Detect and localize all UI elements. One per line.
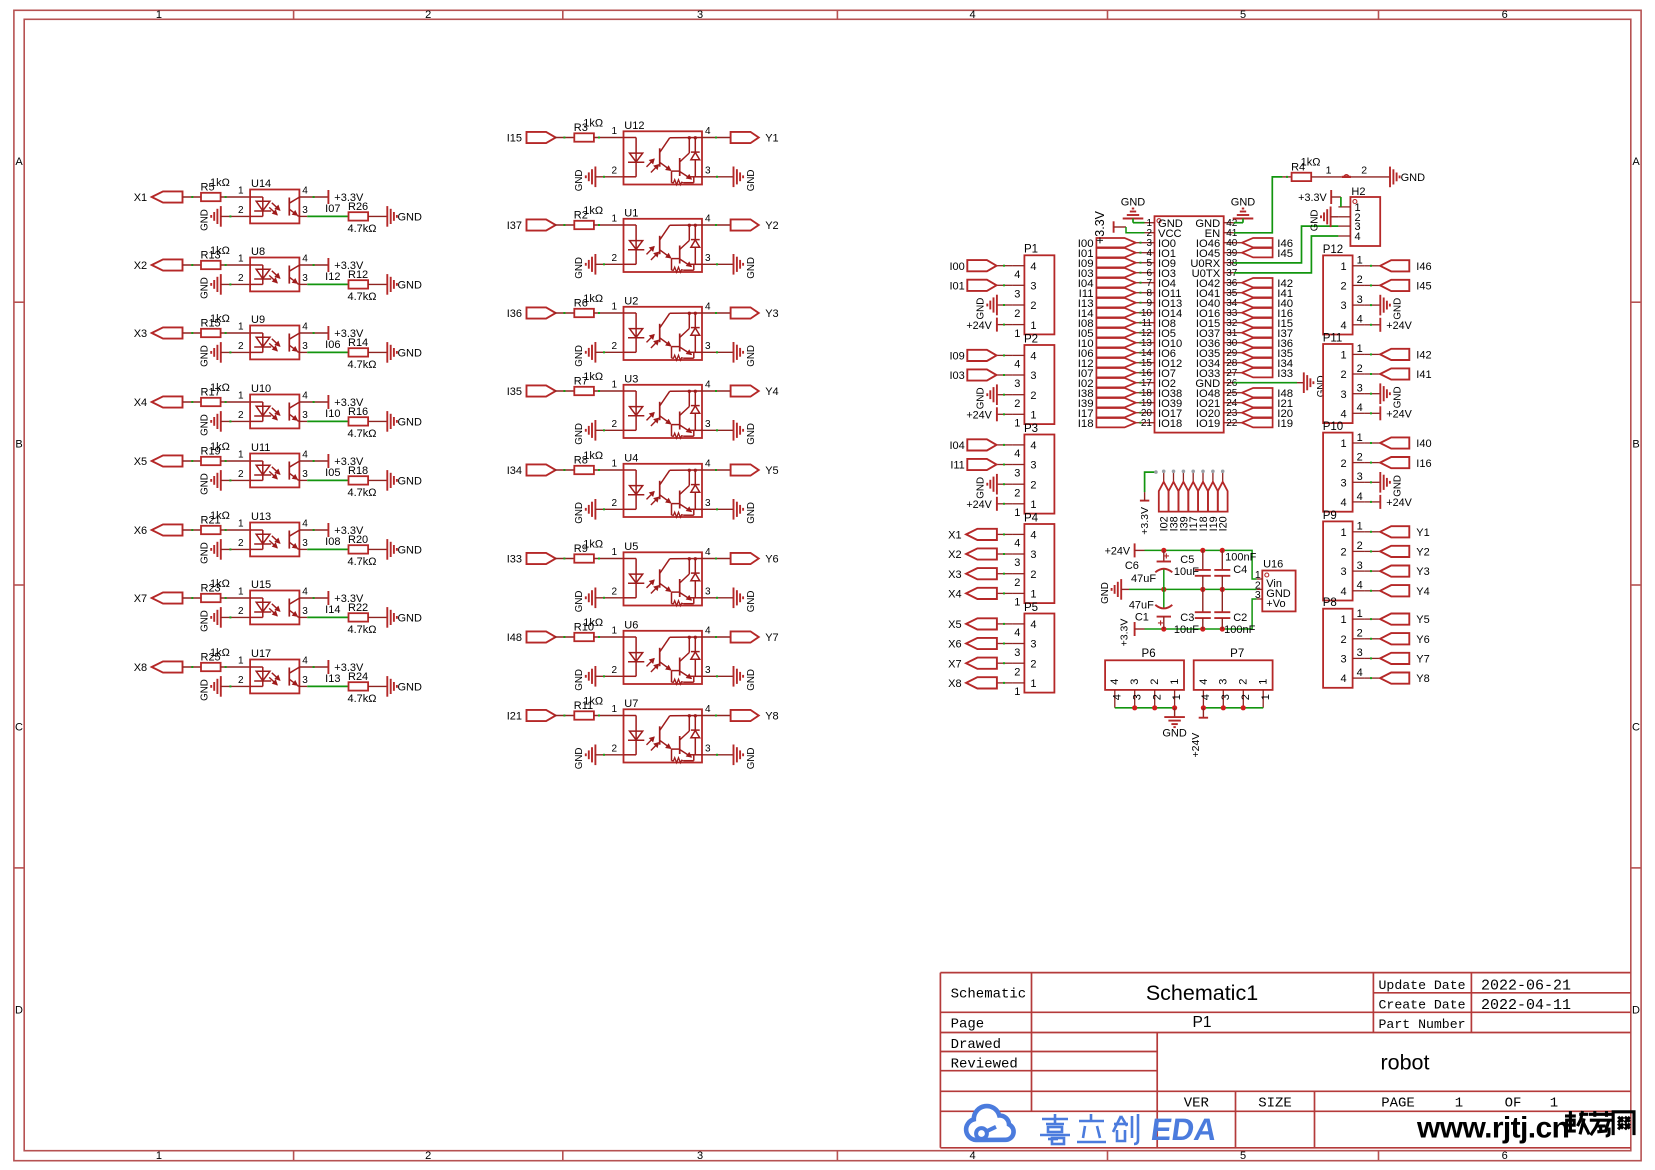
svg-text:P3: P3 — [1024, 423, 1038, 435]
svg-text:2: 2 — [1361, 164, 1367, 176]
ground — [200, 676, 221, 701]
resistor R8 — [574, 450, 603, 474]
wire — [1234, 302, 1242, 304]
wire — [702, 263, 734, 265]
svg-text:2: 2 — [1151, 694, 1163, 700]
svg-text:1: 1 — [611, 547, 617, 558]
svg-text:2: 2 — [611, 586, 617, 597]
wire — [1136, 362, 1145, 364]
net flag I19 — [1242, 418, 1293, 430]
svg-text:3: 3 — [705, 586, 711, 597]
wire — [183, 529, 202, 531]
svg-text:I14: I14 — [325, 604, 340, 616]
wire — [1365, 531, 1381, 533]
svg-text:GND: GND — [200, 345, 211, 367]
svg-text:3: 3 — [302, 606, 308, 617]
wire — [221, 479, 250, 481]
optocoupler U15 — [238, 579, 308, 624]
svg-text:2: 2 — [1240, 694, 1252, 700]
wire — [368, 616, 387, 618]
net flag I34 — [1242, 358, 1293, 370]
svg-text:X8: X8 — [134, 662, 147, 674]
wire — [555, 224, 575, 226]
wire — [183, 332, 202, 334]
svg-text:I35: I35 — [507, 386, 522, 398]
svg-text:GND: GND — [574, 502, 585, 524]
wire net I07 — [307, 215, 348, 217]
svg-text:EDA: EDA — [1149, 1112, 1219, 1147]
svg-text:PAGE: PAGE — [1381, 1096, 1415, 1112]
net flag Y2 — [731, 219, 779, 232]
wire — [221, 351, 250, 353]
svg-text:GND: GND — [746, 591, 757, 613]
svg-text:GND: GND — [746, 502, 757, 524]
svg-text:C: C — [1632, 722, 1640, 734]
svg-text:1: 1 — [1030, 678, 1036, 690]
net flag I19 — [1208, 482, 1220, 532]
port X8 — [948, 677, 997, 690]
svg-text:I03: I03 — [950, 370, 965, 382]
svg-text:1: 1 — [1260, 694, 1272, 700]
frame tick — [836, 10, 838, 19]
net flag Y7 — [731, 631, 779, 644]
svg-text:Schematic1: Schematic1 — [1146, 981, 1258, 1005]
wire — [997, 354, 1013, 356]
wire — [555, 558, 575, 560]
net flag I04 — [1078, 278, 1136, 290]
svg-text:X4: X4 — [948, 589, 961, 601]
resistor R25 — [201, 647, 230, 671]
ground — [1380, 383, 1403, 408]
svg-text:I41: I41 — [1416, 369, 1431, 381]
net flag Y3 — [1380, 566, 1430, 579]
svg-text:GND: GND — [398, 347, 423, 359]
net flag I17 — [1188, 482, 1200, 532]
wire — [997, 503, 1013, 505]
svg-text:1: 1 — [611, 126, 617, 137]
wire +24V rail — [1135, 549, 1145, 551]
svg-text:2: 2 — [1014, 666, 1020, 678]
svg-text:2: 2 — [1030, 658, 1036, 670]
port X2 — [134, 259, 183, 272]
svg-text:1kΩ: 1kΩ — [583, 205, 603, 217]
resistor R24 — [348, 671, 368, 691]
svg-text:1kΩ: 1kΩ — [210, 313, 230, 325]
wire — [997, 483, 1013, 485]
ground — [1390, 167, 1425, 188]
ground — [976, 384, 997, 409]
resistor R23 — [201, 578, 230, 602]
wire — [1365, 373, 1381, 375]
ground — [1162, 708, 1187, 740]
svg-text:R26: R26 — [348, 201, 368, 213]
svg-text:R20: R20 — [348, 534, 368, 546]
svg-text:4: 4 — [1014, 538, 1020, 550]
svg-text:4: 4 — [969, 1150, 975, 1162]
svg-text:3: 3 — [697, 9, 703, 21]
svg-text:2: 2 — [1340, 281, 1346, 293]
ground — [200, 539, 221, 564]
svg-text:2: 2 — [1014, 577, 1020, 589]
svg-text:1: 1 — [156, 9, 162, 21]
wire — [555, 390, 575, 392]
svg-text:1kΩ: 1kΩ — [583, 293, 603, 305]
ground — [200, 411, 221, 436]
resistor R7 — [574, 371, 603, 395]
frame tick — [1378, 10, 1380, 19]
wire — [299, 666, 328, 668]
net flag Y8 — [1380, 673, 1430, 686]
svg-text:Schematic: Schematic — [951, 987, 1027, 1003]
ground — [734, 254, 757, 279]
svg-text:3: 3 — [302, 410, 308, 421]
wire — [555, 636, 575, 638]
wire — [299, 460, 328, 462]
svg-text:4: 4 — [1014, 269, 1020, 281]
net flag I35 — [1242, 348, 1293, 360]
svg-text:P2: P2 — [1024, 333, 1038, 345]
wire — [221, 548, 250, 550]
wire — [1234, 242, 1242, 244]
net flag I20 — [1242, 408, 1293, 420]
svg-text:1: 1 — [1455, 1096, 1463, 1112]
wire U0TX — [1234, 236, 1339, 273]
wire — [1365, 638, 1381, 640]
watermark www.rjtj.cn softare site — [1416, 1111, 1634, 1145]
wire GND rail — [1121, 588, 1129, 590]
wire — [595, 263, 623, 265]
ground — [574, 342, 595, 367]
svg-text:H2: H2 — [1351, 186, 1365, 198]
ground — [734, 666, 757, 691]
wire — [1351, 176, 1390, 178]
svg-text:2: 2 — [1030, 390, 1036, 402]
svg-text:1: 1 — [1340, 614, 1346, 626]
svg-text:D: D — [15, 1004, 23, 1016]
ground — [200, 470, 221, 495]
svg-text:3: 3 — [697, 1150, 703, 1162]
svg-text:4: 4 — [1030, 440, 1036, 452]
port X4 — [948, 588, 997, 601]
wire — [1311, 176, 1342, 178]
svg-text:4.7kΩ: 4.7kΩ — [348, 359, 377, 371]
ground — [574, 499, 595, 524]
resistor R4 — [1291, 157, 1320, 181]
svg-text:1kΩ: 1kΩ — [210, 177, 230, 189]
net flag I46 — [1380, 260, 1431, 273]
net flag I13 — [1078, 298, 1136, 310]
svg-text:4.7kΩ: 4.7kΩ — [348, 487, 377, 499]
svg-text:D: D — [1632, 1004, 1640, 1016]
connector P9 — [1323, 510, 1365, 601]
wire — [997, 304, 1013, 306]
ground — [387, 206, 422, 227]
MCU U18 (42-pin module) — [1141, 216, 1238, 432]
wire — [1136, 412, 1145, 414]
jumper — [1342, 175, 1351, 177]
wire — [1136, 282, 1145, 284]
wire — [1234, 282, 1242, 284]
net flag I41 — [1242, 288, 1293, 300]
wire — [595, 429, 623, 431]
svg-text:1: 1 — [1030, 409, 1036, 421]
svg-text:6: 6 — [1502, 1150, 1508, 1162]
svg-text:100nF: 100nF — [1225, 552, 1256, 564]
svg-text:P6: P6 — [1142, 648, 1156, 660]
svg-text:I45: I45 — [1277, 248, 1293, 260]
svg-text:1: 1 — [156, 1150, 162, 1162]
net flag I17 — [1078, 408, 1136, 420]
wire — [702, 636, 731, 638]
wire — [1365, 412, 1381, 414]
wire — [1234, 342, 1242, 344]
svg-text:I11: I11 — [950, 460, 964, 472]
resistor R17 — [201, 382, 230, 406]
ground — [1121, 197, 1146, 219]
optocoupler U12 — [611, 120, 711, 185]
wire — [1136, 402, 1145, 404]
connector P11 — [1323, 332, 1365, 423]
net flag I08 — [1078, 318, 1136, 330]
svg-text:1: 1 — [238, 254, 244, 265]
wire — [1283, 176, 1292, 178]
net flag Y8 — [731, 710, 779, 723]
net flag Y3 — [731, 307, 779, 320]
svg-text:+24V: +24V — [1386, 408, 1412, 420]
net flag I36 — [507, 307, 556, 320]
svg-text:I33: I33 — [507, 554, 522, 566]
svg-text:2: 2 — [238, 469, 244, 480]
net flag Y1 — [731, 132, 779, 145]
connector P3 — [1012, 423, 1054, 519]
connector P2 — [1012, 333, 1054, 429]
svg-text:+24V: +24V — [1386, 497, 1412, 509]
net flag I11 — [1079, 288, 1136, 300]
svg-text:10uF: 10uF — [1174, 566, 1199, 578]
wire — [299, 332, 328, 334]
svg-text:4: 4 — [302, 322, 308, 333]
svg-text:4: 4 — [1014, 627, 1020, 639]
svg-text:4: 4 — [1030, 619, 1036, 631]
svg-text:I00: I00 — [950, 261, 965, 273]
svg-text:2: 2 — [238, 410, 244, 421]
svg-text:X8: X8 — [948, 678, 961, 690]
svg-text:1kΩ: 1kΩ — [1301, 157, 1321, 169]
optocoupler U2 — [611, 295, 711, 360]
svg-text:2: 2 — [611, 498, 617, 509]
svg-text:1: 1 — [1014, 507, 1020, 519]
wire — [1365, 393, 1381, 395]
ground — [200, 342, 221, 367]
wire — [1136, 342, 1145, 344]
net flag I07 — [1078, 368, 1136, 380]
svg-text:I09: I09 — [950, 351, 965, 363]
svg-text:Y8: Y8 — [765, 711, 778, 723]
wire — [183, 666, 202, 668]
wire — [702, 469, 731, 471]
svg-text:2: 2 — [1357, 451, 1363, 463]
svg-text:2: 2 — [611, 665, 617, 676]
svg-text:3: 3 — [1357, 471, 1363, 483]
svg-text:4.7kΩ: 4.7kΩ — [348, 624, 377, 636]
svg-text:1: 1 — [1357, 343, 1363, 355]
svg-text:I16: I16 — [1416, 458, 1431, 470]
net flag I33 — [1242, 368, 1293, 380]
wire — [221, 401, 251, 403]
ground — [976, 474, 997, 499]
net flag I21 — [1242, 398, 1293, 410]
net flag Y2 — [1380, 546, 1430, 559]
net flag I37 — [507, 219, 556, 232]
power +24V — [1105, 543, 1135, 557]
power +24V — [1380, 406, 1412, 420]
wire — [1234, 322, 1242, 324]
svg-text:P4: P4 — [1024, 512, 1039, 524]
wire — [1136, 332, 1145, 334]
wire — [368, 283, 387, 285]
wire — [1182, 472, 1184, 482]
net flag I14 — [1078, 308, 1136, 320]
net flag Y1 — [1380, 526, 1430, 539]
svg-text:2: 2 — [1014, 308, 1020, 320]
svg-text:4: 4 — [302, 254, 308, 265]
svg-text:1kΩ: 1kΩ — [210, 441, 230, 453]
svg-text:1kΩ: 1kΩ — [210, 578, 230, 590]
wire — [1242, 219, 1244, 223]
svg-text:GND: GND — [398, 612, 423, 624]
wire — [1365, 550, 1381, 552]
ground — [200, 607, 221, 632]
svg-text:C: C — [15, 722, 23, 734]
capacitor C5 10uF — [1174, 550, 1211, 589]
svg-text:1: 1 — [238, 587, 244, 598]
wire — [1365, 501, 1381, 503]
wire — [183, 401, 202, 403]
svg-text:I36: I36 — [507, 308, 522, 320]
wire — [997, 682, 1013, 684]
wire — [594, 636, 624, 638]
wire — [595, 508, 623, 510]
wire — [1365, 284, 1381, 286]
wire — [368, 479, 387, 481]
wire — [299, 196, 328, 198]
svg-text:2: 2 — [425, 1150, 431, 1162]
svg-text:Y6: Y6 — [765, 554, 778, 566]
net flag I45 — [1242, 248, 1293, 260]
wire — [221, 460, 251, 462]
svg-text:3: 3 — [1340, 389, 1346, 401]
net flag I00 — [1078, 238, 1136, 250]
optocoupler U4 — [611, 452, 711, 517]
wire — [997, 284, 1013, 286]
wire — [555, 715, 575, 717]
svg-text:R14: R14 — [348, 337, 368, 349]
svg-text:1: 1 — [1357, 521, 1363, 533]
net flag Y5 — [1380, 614, 1430, 627]
wire — [1222, 472, 1224, 482]
svg-text:3: 3 — [1014, 468, 1020, 480]
svg-text:4: 4 — [705, 547, 711, 558]
svg-text:GND: GND — [1162, 728, 1187, 740]
svg-text:+24V: +24V — [1105, 546, 1131, 558]
svg-text:www.rjtj.cn: www.rjtj.cn — [1416, 1112, 1569, 1145]
wire — [702, 597, 734, 599]
svg-text:1: 1 — [1357, 608, 1363, 620]
wire — [221, 597, 251, 599]
svg-text:4: 4 — [705, 459, 711, 470]
optocoupler U10 — [238, 383, 308, 428]
ground — [200, 206, 221, 231]
frame tick — [293, 10, 295, 19]
svg-text:U5: U5 — [624, 541, 638, 553]
svg-text:Page: Page — [951, 1017, 985, 1033]
svg-text:X2: X2 — [948, 549, 961, 561]
svg-text:2: 2 — [1357, 628, 1363, 640]
svg-text:1: 1 — [238, 656, 244, 667]
svg-text:P9: P9 — [1323, 510, 1337, 522]
capacitor C4 100nF — [1214, 550, 1256, 589]
svg-text:2: 2 — [611, 341, 617, 352]
svg-text:P12: P12 — [1323, 244, 1343, 256]
svg-text:+24V: +24V — [1386, 320, 1412, 332]
resistor R26 — [348, 201, 368, 221]
wire — [1234, 402, 1242, 404]
svg-text:GND: GND — [574, 748, 585, 770]
title block — [940, 973, 1630, 1148]
svg-text:2: 2 — [611, 165, 617, 176]
wire +3.3V rail — [1135, 628, 1145, 630]
svg-text:C2: C2 — [1233, 612, 1247, 624]
frame tick — [562, 10, 564, 19]
svg-text:4: 4 — [1340, 497, 1346, 509]
wire — [221, 616, 250, 618]
wire — [997, 374, 1013, 376]
resistor R15 — [201, 313, 230, 337]
svg-text:3: 3 — [705, 253, 711, 264]
ground — [387, 676, 422, 697]
frame tick — [14, 301, 24, 303]
capacitor C3 10uF — [1174, 589, 1211, 636]
ground — [1231, 197, 1256, 219]
net flag I18 — [1078, 418, 1136, 430]
wire — [594, 312, 624, 314]
svg-text:1kΩ: 1kΩ — [583, 538, 603, 550]
wire — [1136, 252, 1145, 254]
net flag I15 — [507, 132, 556, 145]
svg-text:I37: I37 — [507, 220, 522, 232]
svg-text:GND: GND — [398, 416, 423, 428]
svg-text:4: 4 — [1030, 351, 1036, 363]
svg-text:Y1: Y1 — [765, 133, 778, 145]
svg-text:4: 4 — [1109, 679, 1121, 685]
ground — [387, 539, 422, 560]
svg-text:+Vo: +Vo — [1266, 598, 1285, 610]
optocoupler U6 — [611, 619, 711, 684]
wire — [368, 215, 387, 217]
wire net I13 — [307, 685, 348, 687]
svg-text:C5: C5 — [1180, 554, 1194, 566]
net flag I01 — [950, 280, 997, 293]
svg-text:3: 3 — [705, 498, 711, 509]
svg-text:1: 1 — [1340, 350, 1346, 362]
wire — [299, 264, 328, 266]
svg-text:R24: R24 — [348, 671, 368, 683]
svg-text:Y1: Y1 — [1416, 527, 1429, 539]
wire — [1365, 657, 1381, 659]
frame tick — [14, 867, 24, 869]
svg-text:3: 3 — [302, 469, 308, 480]
power +3.3V — [328, 591, 364, 605]
